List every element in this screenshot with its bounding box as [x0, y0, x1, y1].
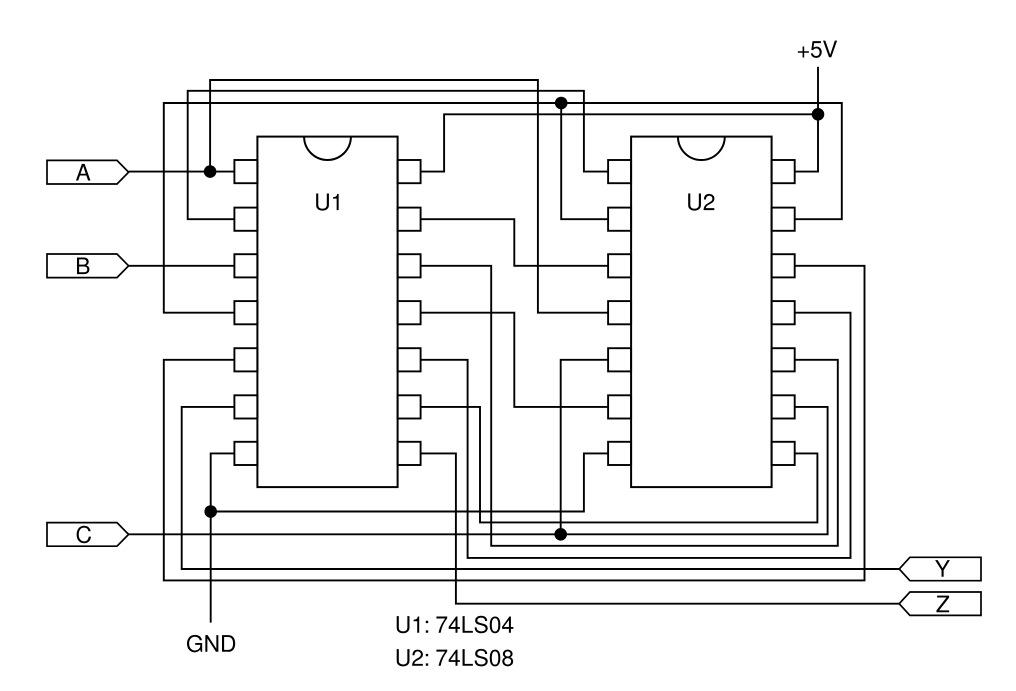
U2 pin 4 [608, 301, 631, 324]
wire net A: flag A to U1 pin 1 [129, 171, 235, 173]
U2 pin 7 [608, 442, 631, 465]
wire +5V stub [817, 67, 819, 115]
node junction +5V rail [812, 108, 825, 121]
U1 pin 6 [234, 395, 257, 418]
node junction net U1.4 rail [555, 97, 568, 110]
U1 pin 7 [234, 442, 257, 465]
U1 pin 8 [398, 442, 421, 465]
wire net A: riser from node to top rail and down to U2 pin 4 [210, 80, 608, 313]
wire net C: flag C rail to U2 pin 9 [129, 407, 828, 534]
input flag A [47, 160, 129, 184]
U1 pin 2 [234, 208, 257, 231]
wire net U1.5-U2.12 [164, 266, 865, 581]
wire net +5V: U1 pin 14 to rail [421, 114, 818, 171]
wire net U1.9-U2.8 [421, 407, 818, 523]
label Y [935, 560, 950, 577]
U2 pin 3 [608, 254, 631, 277]
wire net Y: U1 pin 6 to flag Y [182, 407, 900, 569]
U1 pin 9 [398, 395, 421, 418]
label U1: 74LS04 [397, 616, 514, 633]
wire +5V rail to U2 pin 14 [795, 114, 818, 171]
label B [77, 257, 89, 274]
wire net branch to U2 pin 2 [561, 103, 608, 219]
wire net U1.4-U2.2-U2.13 main run [164, 103, 842, 313]
U2 pin 1 [608, 160, 631, 183]
wire net U1.12-U2.10 [421, 266, 838, 546]
U1 pin 10 [398, 348, 421, 371]
wire net Z: U1 pin 8 to flag Z [421, 453, 900, 603]
U2 pin 6 [608, 395, 631, 418]
U1 pin 13 [398, 208, 421, 231]
U2 pin 9 [772, 395, 795, 418]
U2 pin 12 [772, 254, 795, 277]
U1 pin 11 [398, 301, 421, 324]
input flag C [47, 523, 129, 547]
U2 pin 2 [608, 208, 631, 231]
wire net U1.13-U2.3 [421, 219, 608, 266]
wire net B: flag B to U1 pin 3 [129, 265, 235, 267]
node junction C rail [554, 528, 567, 541]
U2 pin 13 [772, 208, 795, 231]
U1 pin 14 [398, 160, 421, 183]
wire net C branch to U2 pin 5 [561, 360, 608, 535]
output flag Z [899, 592, 981, 615]
label GND [187, 635, 235, 652]
wire net U1.2-U2.1 [188, 91, 608, 219]
node junction A at U1 pin 1 [204, 165, 217, 178]
U1 pin 3 [234, 254, 257, 277]
wire GND stub [210, 512, 212, 623]
output flag Y [899, 557, 981, 580]
label C [77, 526, 91, 543]
U2 pin 8 [772, 442, 795, 465]
U2 pin 14 [772, 160, 795, 183]
label Z [936, 596, 949, 613]
label U1 [316, 193, 339, 210]
U2 pin 11 [772, 301, 795, 324]
label +5V [798, 41, 837, 58]
U1 pin 12 [398, 254, 421, 277]
label A [76, 164, 91, 181]
U1 pin 5 [234, 348, 257, 371]
U1 pin 4 [234, 301, 257, 324]
label U2 [688, 193, 714, 210]
wire net U1.10-U2.11 [421, 313, 851, 558]
IC U1 body (74LS04) [257, 137, 397, 488]
input flag B [47, 254, 129, 278]
IC U2 body (74LS08) [631, 137, 772, 488]
wire net GND: U1 pin 7 to rail and U2 pin 7 [211, 453, 608, 511]
wire net U1.11-U2.6 [421, 313, 608, 407]
U1 pin 1 [234, 160, 257, 183]
label U2: 74LS08 [397, 649, 513, 666]
U2 pin 5 [608, 348, 631, 371]
U2 pin 10 [772, 348, 795, 371]
node junction GND rail [204, 505, 217, 518]
